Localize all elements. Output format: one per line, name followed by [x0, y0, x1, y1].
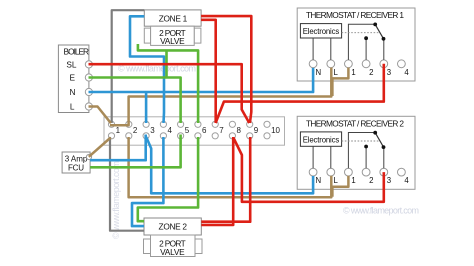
wire green terminal 6 bottom to zone2 valve: [138, 137, 198, 221]
wire green boiler E to terminal 5 top: [89, 78, 181, 124]
svg-text:Electronics: Electronics: [303, 136, 340, 145]
svg-text:THERMOSTAT / RECEIVER 1: THERMOSTAT / RECEIVER 1: [306, 10, 404, 20]
wire red boiler SL to terminal 9 top: [89, 64, 250, 123]
svg-text:10: 10: [271, 126, 280, 135]
wire blue N drop to terminal 3 top: [145, 93, 148, 123]
thermostat2 contact stubs: [366, 147, 384, 169]
wire blue terminal 3 bottom to thermostat2 N: [146, 137, 313, 193]
svg-text:ZONE 1: ZONE 1: [159, 13, 188, 23]
thermostat2 dotted control line: [342, 140, 380, 142]
svg-text:N: N: [316, 68, 322, 77]
svg-text:FCU: FCU: [68, 164, 84, 173]
boiler terminal L: [85, 103, 92, 110]
wire brown thermostat1 terminal1 link: [332, 68, 348, 97]
svg-text:7: 7: [219, 126, 224, 135]
svg-text:N: N: [70, 87, 76, 97]
thermostat1 dotted control line: [342, 32, 380, 34]
svg-text:© www.flameport.com: © www.flameport.com: [343, 206, 419, 216]
zone 2 two port valve box: [144, 235, 203, 257]
thermostat2 switch lever: [375, 133, 383, 147]
svg-text:VALVE: VALVE: [160, 247, 185, 257]
svg-text:Electronics: Electronics: [303, 27, 340, 36]
svg-text:4: 4: [168, 126, 173, 135]
thermostat1 internal N L leads: [313, 38, 331, 60]
svg-text:4: 4: [404, 176, 409, 185]
svg-text:© www.flameport.com: © www.flameport.com: [111, 161, 121, 239]
svg-text:2: 2: [369, 176, 373, 185]
wire blue zone1 valve to terminal 4 top: [130, 16, 164, 123]
3 amp FCU box: [62, 152, 90, 173]
zone 1 two port valve box: [144, 26, 201, 46]
boiler terminal SL: [85, 61, 92, 68]
thermostat1 switch lever: [375, 24, 383, 38]
svg-text:E: E: [69, 72, 75, 82]
svg-text:8: 8: [237, 126, 242, 135]
wire red zone1 valve to terminal 7 top: [201, 20, 216, 123]
junction terminal numbers: [116, 126, 281, 135]
wire red terminal 9 bottom to zone2 valve: [201, 137, 250, 222]
wire brown boiler L to terminal 1 top: [89, 107, 111, 124]
svg-text:VALVE: VALVE: [160, 36, 185, 46]
svg-text:3 Amp: 3 Amp: [65, 155, 88, 164]
wire red terminal 8 bottom to zone2 valve: [201, 137, 233, 225]
svg-text:9: 9: [254, 126, 259, 135]
thermostat 2 terminals N L 1 2 3 4: [309, 168, 405, 176]
thermostat2 switch dots: [373, 131, 377, 135]
svg-text:BOILER: BOILER: [64, 46, 90, 56]
svg-text:1: 1: [351, 176, 355, 185]
wire green connector valve1 to E bus: [165, 50, 168, 77]
wire brown terminal 2 bottom to thermostat2 L: [129, 137, 332, 197]
svg-text:3: 3: [387, 176, 391, 185]
wire red zone1 valve to terminal 9 top: [201, 16, 251, 123]
thermostat 1 terminals N L 1 2 3 4: [309, 60, 405, 68]
boiler terminal labels: [66, 60, 77, 112]
thermostat1 contact stubs: [366, 38, 384, 60]
boiler terminal N: [85, 88, 92, 95]
svg-text:2: 2: [133, 126, 138, 135]
thermostat1 terminal labels: [316, 68, 410, 77]
svg-text:1: 1: [116, 126, 121, 135]
thermostat receiver 1 box: [297, 8, 415, 81]
wire red terminal 8 bottom to thermostat2 terminal3: [233, 138, 383, 202]
electronics box U2: [300, 132, 341, 146]
svg-text:2: 2: [369, 68, 373, 77]
wire blue boiler N bus to thermostat1 N: [89, 68, 314, 92]
svg-text:SL: SL: [66, 60, 77, 70]
svg-text:3: 3: [387, 68, 391, 77]
wire gray terminal 1 bottom to zone2 valve: [110, 137, 144, 231]
wire blue terminal 4 bottom to zone2 valve: [132, 137, 163, 226]
thermostat receiver 2 box: [297, 116, 415, 189]
boiler box: [58, 45, 89, 113]
thermostat1 switch common from terminal 1: [348, 24, 375, 60]
svg-text:3: 3: [150, 126, 155, 135]
wire brown link t1-t2 and bus to thermostat1 L: [110, 68, 331, 126]
svg-text:1: 1: [351, 68, 355, 77]
svg-text:L: L: [70, 102, 75, 112]
thermostat2 terminal labels: [316, 176, 410, 185]
svg-text:ZONE 2: ZONE 2: [159, 222, 188, 232]
thermostat2 internal N L leads: [313, 146, 331, 168]
svg-text:N: N: [316, 176, 322, 185]
junction box strip: [104, 117, 285, 145]
junction terminals 1-10: [108, 121, 270, 139]
FCU terminal: [86, 154, 91, 159]
wire brown thermostat2 terminal1 link: [332, 176, 348, 197]
zone 2 label box: [144, 218, 201, 235]
wire green zone1 valve to terminal 6 top: [138, 44, 198, 123]
svg-text:5: 5: [185, 126, 190, 135]
electronics box U1: [300, 24, 341, 38]
wire red thermostat1 terminal3 to terminal 7 top: [216, 64, 384, 123]
zone 1 label box: [144, 10, 201, 26]
svg-text:L: L: [334, 68, 339, 77]
wire blue FCU to terminal 3 bottom: [90, 135, 146, 161]
thermostat2 switch common from terminal 1: [348, 133, 375, 169]
wire green FCU to terminal 5 bottom: [90, 135, 181, 168]
svg-text:THERMOSTAT / RECEIVER 2: THERMOSTAT / RECEIVER 2: [306, 118, 404, 128]
thermostat1 switch dots: [373, 23, 377, 27]
boiler terminal E: [85, 74, 92, 81]
wire brown terminal 1 bottom to FCU: [89, 138, 111, 157]
wire gray zone1 valve to terminal 1 top: [112, 10, 145, 123]
svg-text:L: L: [334, 176, 339, 185]
svg-text:6: 6: [202, 126, 207, 135]
svg-text:4: 4: [404, 68, 409, 77]
